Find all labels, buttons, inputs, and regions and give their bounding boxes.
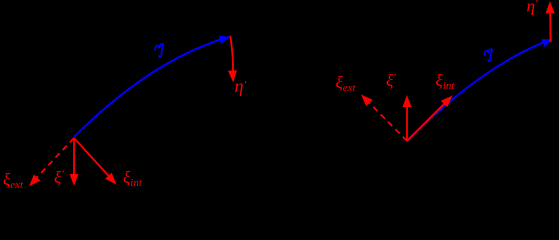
arrowhead of gamma (left) xyxy=(219,33,232,44)
label gamma (right) xyxy=(484,49,492,61)
svg-text:ξint: ξint xyxy=(123,168,143,189)
curve gamma (right) xyxy=(407,39,552,141)
arrow xi' (left) xyxy=(70,138,79,186)
arrowhead of gamma (right) xyxy=(541,35,554,47)
svg-text:ξext: ξext xyxy=(3,170,24,191)
curve gamma (left) xyxy=(74,37,229,137)
svg-text:ξ′: ξ′ xyxy=(54,167,64,187)
svg-text:η′: η′ xyxy=(527,0,538,16)
arrow xi' (right) xyxy=(403,95,412,141)
arrow eta' (right) xyxy=(545,1,554,42)
arrow eta' (left) xyxy=(228,36,238,83)
arrow xi_ext dashed (left) xyxy=(26,138,74,189)
label gamma (left) xyxy=(155,44,163,57)
svg-text:η′: η′ xyxy=(235,76,247,96)
svg-text:ξext: ξext xyxy=(336,73,357,94)
arrow xi_ext dashed (right) xyxy=(358,91,407,141)
arrow xi_int (right) xyxy=(407,92,456,141)
svg-text:ξint: ξint xyxy=(436,71,456,92)
svg-text:ξ′: ξ′ xyxy=(386,70,396,90)
arrow xi_int (left) xyxy=(74,138,120,188)
